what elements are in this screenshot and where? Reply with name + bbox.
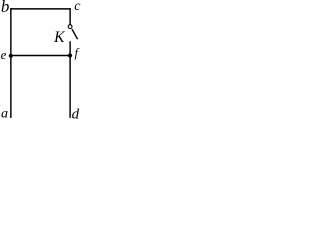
svg-text:e: e bbox=[1, 47, 7, 62]
wire top horizontal b-c bbox=[10, 8, 71, 10]
switch K blade bbox=[72, 29, 78, 39]
svg-text:K: K bbox=[53, 29, 65, 46]
svg-text:a: a bbox=[1, 106, 8, 120]
svg-text:b: b bbox=[1, 0, 10, 16]
switch K pivot circle bbox=[68, 25, 72, 29]
node e junction dot bbox=[9, 54, 13, 58]
wire right lower switch to f to d bbox=[69, 41, 71, 118]
svg-text:c: c bbox=[74, 0, 81, 14]
node f junction dot bbox=[68, 53, 72, 57]
wire middle horizontal e-f bbox=[11, 55, 70, 57]
wire right upper c to switch bbox=[69, 8, 71, 25]
wire left vertical b-e-a bbox=[10, 8, 12, 118]
svg-text:d: d bbox=[72, 107, 80, 120]
